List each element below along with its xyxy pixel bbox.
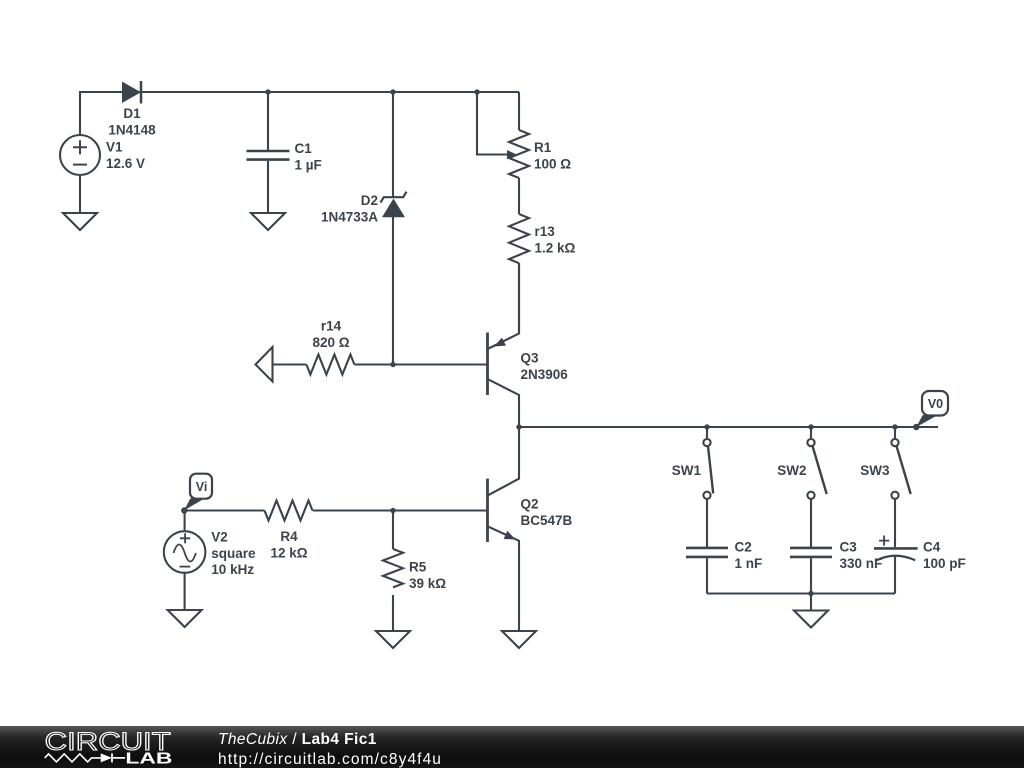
wire C1 to ground	[267, 161, 269, 213]
node F (R5 tap)	[390, 508, 395, 513]
svg-text:C2: C2	[735, 540, 752, 555]
label C1 1 uF	[295, 141, 322, 173]
svg-text:r14: r14	[321, 319, 342, 334]
wire V1 to ground	[79, 175, 81, 213]
svg-text:R5: R5	[409, 560, 427, 575]
capacitor C4 (polarized)	[874, 536, 918, 594]
wire wiper of R1	[477, 92, 508, 155]
label r13 1.2 kOhm	[535, 224, 576, 256]
resistor r13	[509, 214, 529, 263]
svg-text:1 nF: 1 nF	[735, 556, 763, 571]
label D2 1N4733A	[321, 193, 378, 225]
svg-text:100 pF: 100 pF	[923, 556, 966, 571]
resistor R5	[383, 549, 403, 587]
wire R5 stub	[392, 511, 394, 550]
wire C1 stub	[267, 92, 269, 150]
wire R1 to r13	[518, 178, 520, 214]
CircuitLab logo	[42, 729, 222, 769]
svg-text:R1: R1	[534, 140, 552, 155]
capacitor C3	[790, 548, 832, 594]
zener diode D2	[381, 192, 407, 218]
wire output rail	[519, 426, 938, 428]
svg-text:Q3: Q3	[521, 351, 540, 366]
svg-text:V0: V0	[928, 397, 943, 411]
node H (SW2 tap)	[808, 424, 813, 429]
label Q2 BC547B	[521, 497, 573, 529]
node G (SW1 tap)	[704, 424, 709, 429]
resistor r14	[306, 355, 354, 375]
switch SW2	[807, 427, 826, 547]
svg-text:12.6 V: 12.6 V	[106, 156, 145, 171]
wire V2 to ground	[184, 573, 186, 610]
svg-text:C1: C1	[295, 141, 313, 156]
svg-text:Vi: Vi	[196, 480, 208, 494]
resistor R1 (rheostat body)	[509, 130, 529, 178]
svg-text:C4: C4	[923, 540, 941, 555]
node J (cap ground junction)	[808, 591, 813, 596]
label R1 100 Ohm	[534, 140, 571, 172]
svg-text:LAB: LAB	[125, 750, 172, 767]
label V0 flag	[916, 391, 948, 427]
svg-text:10 kHz: 10 kHz	[211, 562, 254, 577]
wire capacitor bottom rail	[707, 592, 895, 594]
node Vi	[181, 507, 187, 513]
svg-text:12 kΩ: 12 kΩ	[270, 546, 307, 561]
ground (Q2 emitter)	[502, 631, 536, 648]
node C (wiper tap)	[474, 89, 479, 94]
label Q3 2N3906	[521, 351, 569, 383]
svg-text:1N4148: 1N4148	[108, 123, 156, 138]
wire port to r14	[273, 363, 307, 365]
capacitor C2	[686, 548, 728, 594]
wire r13 to Q3 emitter	[518, 263, 520, 334]
label D1 1N4148	[108, 106, 156, 138]
svg-text:39 kΩ: 39 kΩ	[409, 576, 446, 591]
label Vi flag	[184, 474, 212, 511]
label V1 12.6 V	[106, 140, 145, 172]
wiper arrow of R1	[507, 150, 517, 159]
label SW3	[860, 463, 890, 478]
wire R5 to ground	[392, 595, 394, 631]
label C2 1 nF	[735, 540, 763, 572]
label V0 text	[928, 397, 943, 411]
svg-text:SW2: SW2	[777, 463, 806, 478]
svg-text:BC547B: BC547B	[521, 513, 573, 528]
svg-text:Q2: Q2	[521, 497, 539, 512]
node V0	[913, 424, 919, 430]
label V2 square 10 kHz	[211, 530, 256, 577]
label SW2	[777, 463, 806, 478]
svg-text:1 µF: 1 µF	[295, 158, 322, 173]
node I (SW3 tap)	[892, 424, 897, 429]
ground (R5)	[376, 631, 410, 648]
label SW1	[672, 463, 702, 478]
node B (D2 tap)	[390, 89, 395, 94]
svg-text:V1: V1	[106, 140, 123, 155]
svg-text:r13: r13	[535, 224, 556, 239]
transistor Q3 (PNP 2N3906)	[488, 263, 520, 427]
wire top to R1	[518, 92, 520, 130]
ground (C1)	[251, 213, 285, 230]
svg-text:1N4733A: 1N4733A	[321, 210, 378, 225]
voltage source V1	[60, 135, 100, 175]
label C4 100 pF	[923, 540, 966, 572]
voltage source V2	[164, 531, 206, 573]
svg-text:square: square	[211, 546, 256, 561]
svg-text:100 Ω: 100 Ω	[534, 157, 571, 172]
svg-text:SW1: SW1	[672, 463, 702, 478]
svg-text:C3: C3	[840, 540, 858, 555]
ground (capacitors)	[794, 611, 828, 628]
node E (Q3 collector / output junction)	[516, 424, 521, 429]
svg-text:1.2 kΩ: 1.2 kΩ	[535, 241, 576, 256]
wire top rail from V1 to R1 corner	[80, 92, 519, 135]
wire D2 anode down to r14 junction	[392, 217, 394, 365]
ground (V1)	[63, 213, 97, 230]
ground (V2)	[168, 610, 202, 627]
svg-text:D2: D2	[361, 193, 378, 208]
svg-text:V2: V2	[211, 530, 228, 545]
label r14 820 Ohm	[312, 319, 349, 351]
svg-text:2N3906: 2N3906	[521, 367, 569, 382]
svg-text:D1: D1	[123, 106, 141, 121]
node A (C1 tap)	[265, 89, 270, 94]
footer bar	[0, 726, 1024, 768]
wire R4 to Q2 base	[313, 509, 488, 511]
label Vi text	[196, 480, 208, 494]
svg-text:330 nF: 330 nF	[840, 556, 883, 571]
label C3 330 nF	[840, 540, 883, 572]
transistor Q2 (NPN BC547B)	[488, 427, 520, 631]
wire D2 stub	[392, 92, 394, 197]
wire Vi node to V2	[184, 511, 186, 532]
diode D1	[122, 81, 141, 104]
label R5 39 kOhm	[409, 560, 446, 592]
label R4 12 kOhm	[270, 529, 307, 561]
resistor R4	[265, 501, 313, 521]
node D (r14/D2/base junction)	[390, 362, 395, 367]
wire to cap ground	[810, 594, 812, 611]
svg-text:SW3: SW3	[860, 463, 890, 478]
svg-text:R4: R4	[280, 529, 298, 544]
input port (left arrow)	[256, 347, 273, 382]
capacitor C1	[247, 151, 290, 160]
wire input rail Vi to R4	[184, 509, 264, 511]
svg-text:820 Ω: 820 Ω	[312, 335, 349, 350]
switch SW1	[703, 427, 713, 547]
wire r14 to junction	[354, 363, 487, 365]
switch SW3	[891, 427, 910, 547]
